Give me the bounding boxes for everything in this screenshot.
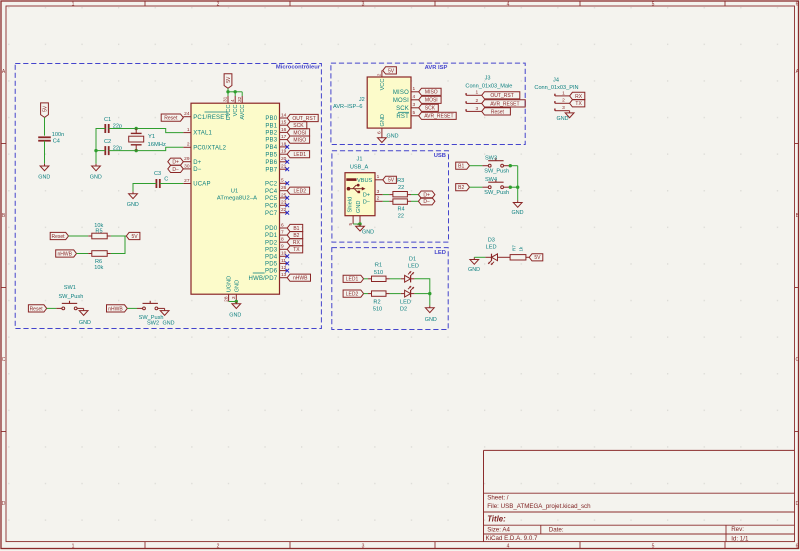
- U1 pin 2 PC0/XTAL2: [183, 142, 226, 152]
- svg-text:GND: GND: [163, 320, 175, 326]
- svg-text:PD5: PD5: [265, 262, 278, 268]
- junction SW3 out: [509, 164, 512, 167]
- ground (D3): [468, 257, 480, 273]
- svg-text:3: 3: [413, 102, 416, 108]
- LED D1: [401, 271, 415, 282]
- svg-text:Date:: Date:: [549, 527, 564, 534]
- wire U1 GND: [229, 301, 237, 303]
- connector J4 Conn_01x03_PIN: [534, 77, 578, 91]
- wire C1 left rail: [96, 129, 105, 164]
- U1 pin 9 PD3: [265, 244, 287, 254]
- ground (J4): [557, 111, 574, 123]
- svg-text:2: 2: [217, 543, 220, 549]
- svg-text:GND: GND: [387, 134, 399, 140]
- svg-text:VCC: VCC: [233, 105, 239, 117]
- svg-text:2: 2: [377, 196, 380, 202]
- svg-text:ATmega8U2–A: ATmega8U2–A: [217, 196, 257, 202]
- svg-text:Conn_01x03_PIN: Conn_01x03_PIN: [534, 85, 578, 91]
- svg-text:SW2: SW2: [147, 320, 159, 326]
- svg-text:9: 9: [281, 244, 284, 250]
- U1 pin 7 PD1: [265, 230, 287, 240]
- svg-text:J3: J3: [485, 76, 491, 82]
- wire R2 to D2: [390, 293, 401, 295]
- J2 pin 1 MISO: [393, 86, 419, 96]
- U1 pin 12 PD6: [265, 265, 287, 275]
- svg-text:1: 1: [413, 86, 416, 92]
- power 5V (D3): [529, 254, 543, 261]
- svg-text:B2: B2: [458, 185, 464, 191]
- svg-text:Microcontrôleur: Microcontrôleur: [276, 65, 321, 71]
- svg-text:5V: 5V: [388, 68, 395, 74]
- svg-text:Conn_01x03_Male: Conn_01x03_Male: [465, 83, 512, 89]
- svg-text:PD0: PD0: [265, 226, 278, 232]
- svg-text:11: 11: [281, 258, 286, 264]
- svg-text:16MHz: 16MHz: [148, 142, 166, 148]
- svg-text:5: 5: [348, 222, 354, 225]
- label MOSI (U1 PB2): [287, 129, 309, 136]
- U1 pin 23 PC6: [265, 200, 287, 210]
- wire 5V to C4: [44, 117, 46, 135]
- svg-text:D+: D+: [193, 160, 202, 166]
- label AVR_RESET (J2 RST): [419, 112, 457, 119]
- svg-text:PD3: PD3: [265, 247, 278, 253]
- label B2 (U1 PD1): [287, 232, 303, 239]
- J4 pin 3: [555, 105, 570, 111]
- svg-text:B1: B1: [458, 164, 464, 170]
- svg-text:D3: D3: [488, 238, 495, 244]
- svg-text:R3: R3: [397, 178, 404, 184]
- J3 pin 1: [466, 90, 482, 96]
- svg-text:SCK: SCK: [293, 123, 304, 129]
- svg-text:SW_Push: SW_Push: [58, 294, 83, 300]
- J1 pin 1 VBUS: [357, 174, 383, 184]
- svg-text:4: 4: [507, 1, 510, 7]
- svg-text:1: 1: [72, 1, 75, 7]
- svg-text:PD2: PD2: [265, 240, 278, 246]
- label LED2: [343, 290, 364, 297]
- junction rail C2: [94, 149, 97, 152]
- junction LED: [428, 292, 431, 295]
- svg-text:nHWB: nHWB: [57, 251, 72, 257]
- svg-text:D: D: [795, 501, 799, 507]
- svg-text:GND: GND: [127, 202, 139, 208]
- svg-text:Title:: Title:: [487, 515, 506, 524]
- svg-text:1: 1: [72, 543, 75, 549]
- svg-text:28: 28: [223, 296, 229, 302]
- svg-text:10: 10: [281, 251, 287, 257]
- wire J1 D- to R4: [383, 200, 390, 202]
- svg-text:18: 18: [281, 141, 287, 147]
- svg-text:PC0/XTAL2: PC0/XTAL2: [193, 145, 226, 151]
- power 5V (R5/R6): [126, 232, 140, 239]
- svg-text:Sheet: /: Sheet: /: [487, 495, 509, 502]
- U1 pin 11 PD5: [265, 258, 287, 268]
- svg-text:6: 6: [281, 222, 284, 228]
- J1 pin 4 GND: [355, 216, 361, 226]
- wire R1 to D1: [390, 278, 401, 280]
- svg-text:PD1: PD1: [265, 233, 278, 239]
- U1 pin 32 AVCC: [237, 96, 246, 120]
- U1 pin 15 PB1: [265, 120, 287, 130]
- svg-text:AVR_RESET: AVR_RESET: [424, 114, 453, 120]
- svg-text:HWB/PD7: HWB/PD7: [249, 276, 278, 282]
- svg-text:29: 29: [184, 156, 190, 162]
- svg-text:PC2: PC2: [265, 181, 278, 187]
- svg-text:LED1: LED1: [294, 152, 307, 158]
- label TX (U1 PD3): [287, 246, 303, 253]
- no-connect PB6: [285, 160, 289, 164]
- J1 pin 3 D+: [363, 189, 383, 199]
- svg-text:GND: GND: [512, 210, 524, 216]
- J2 pin 5 RST: [396, 110, 418, 120]
- switch SW2 SW_Push: [137, 301, 165, 327]
- no-connect PC7: [285, 211, 289, 215]
- svg-text:PC1/RESET: PC1/RESET: [193, 115, 228, 121]
- svg-text:3: 3: [562, 105, 565, 111]
- label MISO (J2 MISO): [419, 88, 441, 95]
- wire nHWB to R6: [77, 253, 89, 255]
- LED D2: [401, 286, 415, 297]
- svg-text:LED: LED: [434, 250, 446, 256]
- ground (SW1): [79, 308, 91, 326]
- svg-text:2: 2: [562, 98, 565, 104]
- svg-text:GND: GND: [234, 280, 240, 292]
- svg-text:27: 27: [184, 178, 190, 184]
- wire C3 to UCAP: [160, 183, 184, 185]
- svg-text:VCC: VCC: [380, 79, 386, 91]
- wire 5V to VCC pins: [228, 88, 242, 96]
- ground (C4): [38, 164, 50, 181]
- svg-text:D: D: [2, 501, 6, 507]
- wire B1 to SW3: [470, 165, 483, 167]
- svg-text:2: 2: [187, 142, 190, 148]
- svg-text:22: 22: [398, 213, 404, 219]
- wire SW3 to rail: [509, 165, 518, 167]
- svg-text:SW_Push: SW_Push: [484, 168, 509, 174]
- svg-text:Y1: Y1: [148, 134, 155, 140]
- svg-text:Reset: Reset: [51, 234, 65, 240]
- svg-text:AVR_RESET: AVR_RESET: [490, 101, 519, 107]
- label OUT_RST (U1 PB0): [287, 114, 318, 121]
- svg-text:XTAL1: XTAL1: [193, 131, 212, 137]
- svg-text:PB7: PB7: [265, 167, 277, 173]
- wire nHWB to SW2: [127, 307, 137, 309]
- svg-text:100n: 100n: [52, 132, 64, 138]
- J2 pin 4 MOSI: [393, 94, 419, 104]
- J3 pin 3: [466, 106, 482, 112]
- junction J1 GND: [358, 222, 361, 225]
- ground (J1): [356, 224, 374, 236]
- svg-text:R4: R4: [398, 206, 405, 212]
- label D- (U1): [168, 165, 184, 172]
- U1 pin 18 PB4: [265, 141, 287, 151]
- label D- (USB): [418, 198, 435, 205]
- svg-text:21: 21: [281, 164, 287, 170]
- section box LED: [332, 248, 448, 330]
- svg-text:SCK: SCK: [425, 106, 436, 112]
- svg-text:TX: TX: [293, 247, 300, 253]
- svg-text:17: 17: [281, 134, 287, 140]
- svg-text:GND: GND: [425, 317, 437, 323]
- svg-text:J4: J4: [553, 77, 559, 83]
- svg-text:1: 1: [476, 90, 479, 96]
- U1 pin 1 XTAL1: [183, 127, 212, 137]
- svg-text:SW_Push: SW_Push: [484, 190, 509, 196]
- svg-text:5V: 5V: [534, 255, 541, 261]
- svg-text:R2: R2: [373, 299, 380, 305]
- U1 pin 31 UVCC: [223, 96, 232, 120]
- wire C2 to XTAL2: [109, 147, 184, 150]
- connector J2 AVR-ISP-6 body: [367, 77, 411, 128]
- label Reset (U1 pin 24): [161, 114, 183, 121]
- svg-text:PD4: PD4: [265, 254, 278, 260]
- svg-text:PC4: PC4: [265, 189, 278, 195]
- label D+ (U1): [168, 158, 184, 165]
- svg-text:3: 3: [362, 1, 365, 7]
- J2 pin 6 GND: [377, 114, 386, 135]
- svg-text:GND: GND: [557, 116, 569, 122]
- svg-text:C4: C4: [53, 139, 60, 145]
- ground (J2): [378, 134, 399, 143]
- J3 pin 2: [466, 98, 482, 104]
- label nHWB (SW2): [107, 305, 128, 312]
- svg-text:Reset: Reset: [30, 306, 44, 312]
- power 5V (J2): [383, 67, 397, 74]
- section box Microcontroleur: [15, 64, 321, 329]
- junction Y1 top: [135, 127, 138, 130]
- U1 pin 30 D&#8722;: [183, 163, 201, 173]
- svg-text:MOSI: MOSI: [293, 130, 306, 136]
- power 5V (left): [41, 103, 49, 118]
- switch SW4 SW_Push: [482, 177, 509, 196]
- svg-text:2: 2: [217, 1, 220, 7]
- svg-text:13: 13: [281, 272, 287, 278]
- svg-text:1: 1: [377, 174, 380, 180]
- svg-text:20: 20: [281, 156, 287, 162]
- svg-text:MOSI: MOSI: [393, 98, 409, 104]
- label B2: [456, 184, 470, 191]
- no-connect PC2: [285, 181, 289, 185]
- ground (C3): [127, 192, 139, 208]
- svg-text:MISO: MISO: [393, 90, 409, 96]
- svg-text:UCAP: UCAP: [193, 182, 210, 188]
- resistor R3 22: [389, 192, 411, 197]
- U1 pin 13 HWB/PD7: [249, 272, 288, 282]
- IC U1 ATmega8U2-A body: [191, 103, 280, 294]
- junction VCC 2: [234, 90, 237, 93]
- wire C4 to GND: [44, 141, 46, 164]
- svg-text:File: USB_ATMEGA_projet.kicad_: File: USB_ATMEGA_projet.kicad_sch: [487, 503, 591, 510]
- U1 pin 4 VCC: [230, 96, 239, 116]
- label RX (J4): [570, 92, 585, 99]
- junction U1 GND: [235, 300, 238, 303]
- title block: [484, 450, 795, 542]
- svg-text:R6: R6: [95, 259, 102, 265]
- label Reset (R5): [50, 232, 68, 239]
- U1 pin 5 PC2: [265, 178, 287, 188]
- svg-text:4: 4: [413, 94, 416, 100]
- svg-text:D1: D1: [409, 256, 416, 262]
- junction rail B2: [516, 186, 519, 189]
- U1 pin 22 PC7: [265, 207, 287, 217]
- svg-text:PB3: PB3: [265, 138, 277, 144]
- label AVR_RESET (J3 pin 2): [482, 100, 526, 107]
- resistor R4 22: [389, 199, 411, 204]
- J4 pin 1: [555, 90, 570, 96]
- svg-text:30: 30: [184, 163, 190, 169]
- svg-text:12: 12: [281, 265, 287, 271]
- switch SW3 SW_Push: [482, 156, 509, 175]
- svg-text:MOSI: MOSI: [425, 98, 438, 104]
- svg-text:14: 14: [281, 112, 287, 118]
- svg-text:6: 6: [377, 131, 383, 134]
- svg-text:22: 22: [281, 207, 287, 213]
- capacitor C3: [154, 171, 168, 188]
- svg-text:Rev:: Rev:: [731, 526, 744, 533]
- wire LED1 to R1: [364, 278, 368, 280]
- svg-text:PD6: PD6: [265, 269, 278, 275]
- ground (U1): [229, 302, 241, 319]
- svg-text:RST: RST: [396, 114, 409, 120]
- svg-text:D−: D−: [193, 167, 202, 173]
- svg-text:UVCC: UVCC: [226, 105, 232, 121]
- label LED2 (U1 PC4): [287, 187, 309, 194]
- crystal Y1 16MHz: [129, 129, 166, 151]
- wire D2 to junction: [414, 293, 429, 295]
- svg-text:GND: GND: [380, 114, 386, 126]
- ground (switches): [512, 200, 524, 216]
- label OUT_RST (J3 pin 1): [482, 92, 520, 99]
- resistor R1 510: [368, 276, 390, 281]
- svg-text:RX: RX: [575, 94, 583, 100]
- label LED1: [343, 275, 364, 282]
- label TX (J4): [570, 100, 585, 107]
- svg-text:PB6: PB6: [265, 160, 277, 166]
- label MOSI (J2 MOSI): [419, 96, 441, 103]
- wire B2 to SW4: [470, 186, 483, 188]
- svg-text:5: 5: [652, 1, 655, 7]
- svg-text:SCK: SCK: [396, 106, 409, 112]
- J1 VBUS bar graphic: [346, 178, 356, 181]
- no-connect PD5: [285, 262, 289, 266]
- svg-text:LED: LED: [400, 299, 411, 305]
- svg-text:U1: U1: [231, 189, 238, 195]
- svg-text:OUT_RST: OUT_RST: [292, 116, 315, 122]
- wire Reset to R5: [69, 235, 89, 237]
- svg-text:26: 26: [281, 185, 287, 191]
- label D+ (USB): [418, 191, 435, 198]
- svg-text:OUT_RST: OUT_RST: [490, 93, 513, 99]
- J2 pin 2 VCC: [377, 70, 386, 90]
- wire D1 to junction: [414, 279, 429, 294]
- label nHWB (U1 HWB/PD7): [287, 274, 310, 281]
- connector J1 USB_A body: [345, 173, 375, 216]
- svg-text:1: 1: [562, 90, 565, 96]
- U1 pin 21 PB7: [265, 164, 287, 174]
- U1 pin 17 PB3: [265, 134, 287, 144]
- svg-text:Size: A4: Size: A4: [487, 527, 510, 534]
- USB icon (J1): [347, 184, 366, 193]
- label B1 (U1 PD0): [287, 224, 303, 231]
- U1 pin 26 PC4: [265, 185, 287, 195]
- wire 5V down to R6: [111, 236, 125, 254]
- svg-text:2: 2: [377, 73, 383, 76]
- U1 pin 27 UCAP: [183, 178, 210, 188]
- svg-text:6: 6: [796, 543, 799, 549]
- wire R3 to D+ label: [411, 194, 418, 196]
- U1 pin 19 PB5: [265, 149, 287, 159]
- J2 pin 3 SCK: [396, 102, 419, 112]
- wire J1 D+ to R3: [383, 194, 390, 196]
- svg-text:C1: C1: [104, 117, 111, 123]
- svg-text:LED2: LED2: [294, 189, 307, 195]
- resistor R6 10k: [88, 251, 111, 271]
- svg-text:16: 16: [281, 127, 287, 133]
- U1 pin 25 PC5: [265, 192, 287, 202]
- no-connect PC6: [285, 203, 289, 207]
- svg-text:31: 31: [223, 96, 229, 102]
- svg-text:UGND: UGND: [227, 276, 233, 292]
- svg-text:MISO: MISO: [425, 90, 438, 96]
- label LED1 (U1 PB5): [287, 151, 309, 158]
- svg-text:GND: GND: [356, 201, 362, 213]
- svg-text:TX: TX: [575, 101, 582, 107]
- label nHWB (R6): [56, 250, 77, 257]
- wire GND to D3: [474, 256, 485, 258]
- resistor R5 10k: [88, 223, 111, 239]
- svg-text:SW4: SW4: [485, 177, 497, 183]
- power 5V (U1 top): [224, 74, 232, 89]
- svg-text:2: 2: [476, 98, 479, 104]
- wire C1 to XTAL1: [109, 129, 184, 133]
- svg-text:LED: LED: [408, 264, 419, 270]
- svg-text:R7: R7: [512, 245, 517, 251]
- power 5V (J1): [383, 176, 397, 183]
- svg-text:nHWB: nHWB: [108, 306, 123, 312]
- label RX (U1 PD2): [287, 239, 303, 246]
- svg-text:AVCC: AVCC: [240, 105, 246, 120]
- junction SW4 out: [509, 186, 512, 189]
- no-connect PC5: [285, 196, 289, 200]
- svg-text:PB0: PB0: [265, 116, 277, 122]
- junction Y1 bottom: [135, 149, 138, 152]
- U1 pin 29 D+: [183, 156, 201, 166]
- svg-text:LED2: LED2: [346, 292, 359, 298]
- svg-text:GND: GND: [468, 267, 480, 273]
- U1 pin 10 PD4: [265, 251, 287, 261]
- svg-text:C2: C2: [104, 139, 111, 145]
- svg-text:PB4: PB4: [265, 145, 277, 151]
- svg-text:4: 4: [230, 99, 236, 102]
- svg-text:R5: R5: [95, 229, 102, 235]
- svg-text:LED1: LED1: [346, 277, 359, 283]
- svg-text:5: 5: [413, 110, 416, 116]
- svg-text:3: 3: [377, 189, 380, 195]
- capacitor C1: [104, 117, 122, 133]
- svg-text:AVR–ISP–6: AVR–ISP–6: [333, 104, 362, 110]
- no-connect PD4: [285, 254, 289, 258]
- U1 pin 3 GND: [231, 280, 240, 302]
- switch SW1 SW_Push: [56, 285, 83, 310]
- svg-text:22: 22: [398, 185, 404, 191]
- label Reset (J3 pin 3): [482, 108, 511, 115]
- svg-text:510: 510: [373, 307, 382, 313]
- U1 pin 14 PB0: [265, 112, 287, 122]
- capacitor C4: [38, 132, 64, 145]
- resistor R7 1k: [510, 245, 529, 260]
- svg-text:PB1: PB1: [265, 123, 277, 129]
- svg-text:PC7: PC7: [265, 211, 278, 217]
